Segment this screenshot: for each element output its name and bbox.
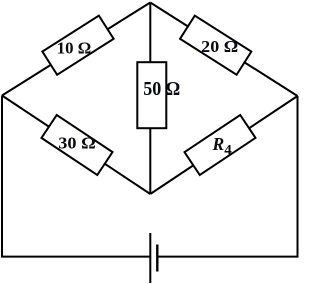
wire middle vertical (node T to node B) [149,3,151,195]
resistor R2 body (20 ohm) [180,16,251,75]
wire left vertical (node L down to bottom rail) [1,96,3,257]
wire top-right diagonal (node T to node R) [150,3,297,97]
svg-text:50 Ω: 50 Ω [143,79,180,100]
battery V1 long plate [149,233,151,283]
resistor R4 body [185,115,256,175]
resistor R3 body (30 ohm) [41,115,112,175]
wire bottom rail left segment [1,256,150,258]
resistor R5 body (50 ohm, middle branch) [137,62,166,128]
wire bottom-right diagonal (node B to node R) [150,96,297,194]
wire bottom-left diagonal (node L to node B) [2,96,150,195]
wire bottom rail right segment [157,256,298,258]
svg-text:10 Ω: 10 Ω [57,39,92,58]
wire right vertical (node R down to bottom rail) [297,96,299,257]
svg-text:30 Ω: 30 Ω [58,134,96,153]
battery V1 short plate [156,245,158,272]
wire top-left diagonal (node L to node T) [2,3,150,96]
resistor R1 body (10 ohm) [42,16,113,75]
svg-text:20 Ω: 20 Ω [201,37,238,56]
